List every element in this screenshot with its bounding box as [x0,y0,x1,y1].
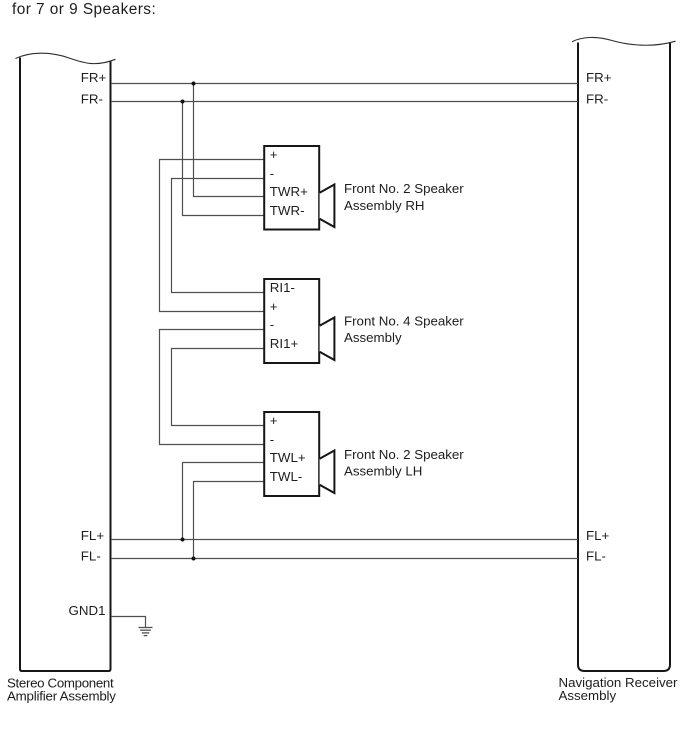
wire FR+ junction to TWR+ [194,84,265,197]
label: Front No. 4 Speaker Assembly [344,313,464,345]
svg-text:FL+: FL+ [81,528,105,543]
receiver pin label FL+ [586,528,610,543]
svg-text:Assembly: Assembly [559,688,617,703]
speaker2 pin label RI1+ [270,336,299,351]
amplifier pin label FR+ [81,70,107,85]
wire speaker2 RI1+ to speaker3 + [172,349,265,426]
svg-text:Front No. 4 Speaker: Front No. 4 Speaker [344,313,464,328]
svg-text:FR+: FR+ [81,70,107,85]
speaker1 pin label TWR- [270,203,305,218]
svg-text:for 7 or 9 Speakers:: for 7 or 9 Speakers: [12,1,156,18]
speaker1 horn [320,185,335,228]
svg-text:Front No. 2 Speaker: Front No. 2 Speaker [344,447,464,462]
wire FR- (amplifier to receiver) [111,101,578,103]
amplifier pin label FL+ [81,528,105,543]
wire FL- (amplifier to receiver) [111,558,578,560]
amplifier pin label FL- [81,549,101,564]
label: Navigation Receiver Assembly [559,675,679,703]
receiver pin label FR+ [586,70,612,85]
svg-text:Amplifier Assembly: Amplifier Assembly [7,689,116,704]
title: for 7 or 9 Speakers: [12,1,156,18]
speaker2 pin label - [270,317,274,332]
svg-text:Assembly: Assembly [344,330,402,345]
wire FL+ (amplifier to receiver) [111,539,578,541]
svg-text:TWR-: TWR- [270,203,305,218]
svg-text:FR-: FR- [81,92,103,107]
speaker1 pin label + [270,147,278,162]
speaker2 horn [320,318,335,361]
svg-text:-: - [270,166,274,181]
speaker3 pin label + [270,413,278,428]
stereo component amplifier assembly box outline [16,53,116,671]
wire FR- junction to TWR- [183,102,265,216]
svg-text:FL-: FL- [81,549,101,564]
svg-text:TWL-: TWL- [270,469,303,484]
speaker3 pin label TWL+ [270,450,306,465]
wire GND1 to ground [111,617,146,628]
svg-text:+: + [270,147,278,162]
svg-text:+: + [270,299,278,314]
junction dot on FL+ [181,538,185,542]
svg-text:FL-: FL- [586,549,606,564]
junction dot on FL- [192,557,196,561]
svg-text:Front No. 2 Speaker: Front No. 2 Speaker [344,181,464,196]
svg-text:FR-: FR- [586,92,608,107]
svg-text:Assembly LH: Assembly LH [344,464,422,479]
receiver pin label FL- [586,549,606,564]
svg-text:TWR+: TWR+ [270,184,308,199]
wire speaker1 - to speaker2 RI1- [172,179,265,293]
svg-text:TWL+: TWL+ [270,450,306,465]
speaker box: Front No. 4 Speaker Assembly [264,279,319,363]
wire speaker2 - to speaker3 - [160,330,265,445]
amplifier pin label FR- [81,92,103,107]
svg-text:FR+: FR+ [586,70,612,85]
junction dot on FR+ [192,82,196,86]
speaker box: Front No. 2 Speaker Assembly LH [264,412,319,496]
label: Stereo Component Amplifier Assembly [7,676,116,704]
svg-text:FL+: FL+ [586,528,610,543]
speaker1 pin label TWR+ [270,184,308,199]
speaker3 pin label TWL- [270,469,303,484]
speaker3 horn [320,451,335,494]
svg-text:GND1: GND1 [69,603,106,618]
svg-text:+: + [270,413,278,428]
svg-text:-: - [270,317,274,332]
wire TWL- to FL- junction [194,482,265,559]
label: Front No. 2 Speaker Assembly LH [344,447,464,479]
wire TWL+ to FL+ junction [183,463,265,540]
label: Front No. 2 Speaker Assembly RH [344,181,464,213]
speaker1 pin label - [270,166,274,181]
receiver pin label FR- [586,92,608,107]
amplifier pin label GND1 [69,603,106,618]
svg-text:RI1-: RI1- [270,280,295,295]
speaker2 pin label RI1- [270,280,295,295]
svg-text:RI1+: RI1+ [270,336,299,351]
junction dot on FR- [181,100,185,104]
speaker3 pin label - [270,432,274,447]
wire speaker1 + to speaker2 + [160,160,265,312]
speaker2 pin label + [270,299,278,314]
ground symbol [139,628,153,636]
speaker box: Front No. 2 Speaker Assembly RH [264,146,319,230]
navigation receiver assembly box outline [572,37,676,671]
svg-text:-: - [270,432,274,447]
svg-text:Assembly RH: Assembly RH [344,198,425,213]
wire FR+ (amplifier to receiver) [111,83,578,85]
